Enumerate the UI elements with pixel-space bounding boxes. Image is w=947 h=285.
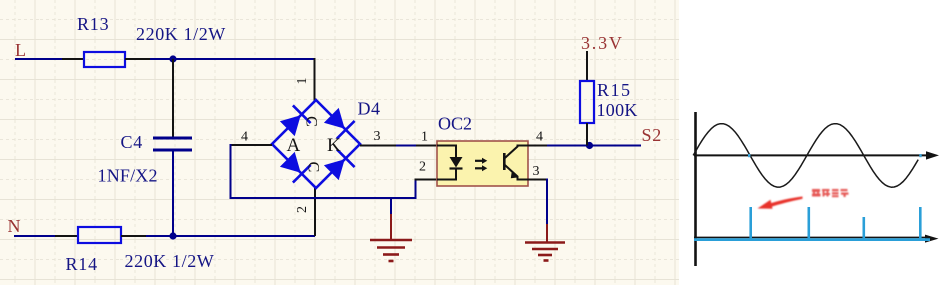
svg-text:1: 1	[295, 78, 310, 85]
wire OC2 pin 2 stub	[415, 179, 438, 181]
svg-text:S2: S2	[642, 125, 663, 145]
diode A to pin2 (bottom-left edge)	[280, 152, 301, 173]
svg-text:3: 3	[533, 164, 540, 179]
svg-text:3: 3	[374, 129, 381, 144]
ground (left, bridge negative)	[370, 240, 412, 261]
junction top (L node)	[169, 55, 176, 62]
svg-text:220K 1/2W: 220K 1/2W	[125, 251, 215, 271]
zero-cross tick 2	[919, 154, 921, 157]
pulse 2	[807, 207, 810, 239]
wire down to ground 2	[546, 179, 548, 243]
svg-text:1: 1	[421, 130, 428, 145]
svg-text:4: 4	[536, 130, 543, 145]
wire bridge pin 4 stub	[231, 144, 273, 146]
resistor R13	[84, 52, 125, 67]
pulse 4	[919, 207, 922, 239]
annotation arrow (red)	[758, 197, 803, 209]
svg-text:220K 1/2W: 220K 1/2W	[136, 24, 226, 44]
svg-text:K: K	[327, 135, 341, 156]
svg-text:100K: 100K	[597, 100, 638, 120]
wire OC2 pin 3 stub	[528, 179, 547, 181]
OC2 internal phototransistor	[504, 146, 528, 180]
junction S2 node	[586, 142, 593, 149]
wire R14 to junction to bridge pin 2 riser	[121, 235, 315, 237]
svg-text:2: 2	[295, 206, 310, 213]
pulse 3	[862, 217, 865, 239]
svg-text:D4: D4	[358, 99, 381, 119]
wire N to R14	[14, 235, 78, 237]
wire R15 to junction	[586, 123, 588, 146]
wire junction down to C4	[172, 59, 174, 137]
annotation text (detection signal)	[812, 189, 849, 197]
resistor R14	[78, 227, 121, 243]
sine horizontal axis with arrow	[694, 151, 939, 159]
svg-text:R15: R15	[597, 80, 632, 100]
zero-cross tick 1	[748, 154, 750, 157]
wire R13 to junction to corner	[125, 58, 315, 60]
ground (right, OC2 emitter)	[525, 243, 565, 261]
junction bottom (N node)	[169, 232, 176, 239]
svg-text:3.3V: 3.3V	[581, 33, 624, 53]
wire down to ground 1	[390, 198, 392, 239]
wire OC2 pin 4 to S2	[528, 145, 641, 147]
svg-text:OC2: OC2	[438, 114, 472, 134]
pulse 1	[749, 207, 752, 239]
svg-text:A: A	[287, 135, 301, 156]
wire 3.3V to R15	[586, 51, 588, 81]
svg-text:R13: R13	[77, 14, 109, 34]
diode A to pin1 (top-left edge)	[280, 115, 301, 136]
diode pin2 to K (bottom-right edge)	[324, 159, 345, 180]
svg-text:R14: R14	[66, 254, 98, 274]
svg-text:2: 2	[419, 160, 426, 175]
wire bridge pin 3 to OC2 pin 1	[360, 145, 437, 147]
wire L to R13	[15, 58, 84, 60]
wire bridge pin 2 down to N line	[314, 187, 316, 236]
sine wave (mains voltage)	[693, 124, 918, 188]
svg-text:C: C	[303, 116, 320, 127]
svg-text:N: N	[8, 216, 21, 236]
bridge rectifier D4	[272, 100, 360, 188]
OC2 internal LED	[437, 146, 463, 180]
optocoupler OC2 body	[437, 141, 528, 186]
wire corner down to bridge pin 1	[314, 58, 316, 101]
resistor R15	[580, 81, 594, 123]
svg-text:C: C	[305, 162, 322, 173]
capacitor C4	[153, 138, 192, 150]
svg-text:C4: C4	[121, 132, 144, 152]
wire loop pin4 to OC2 pin 2	[231, 144, 416, 198]
OC2 coupling arrows	[475, 158, 487, 172]
diode pin1 to K (top-right edge)	[324, 108, 345, 129]
vertical axis	[694, 112, 697, 266]
svg-text:1NF/X2: 1NF/X2	[98, 166, 158, 186]
schematic background	[0, 0, 679, 285]
wire C4 down to N line	[172, 151, 174, 236]
svg-text:L: L	[15, 40, 26, 60]
svg-text:4: 4	[241, 130, 248, 145]
pulse baseline (cyan)	[694, 238, 930, 241]
pulse baseline black axis with arrow	[694, 235, 939, 243]
